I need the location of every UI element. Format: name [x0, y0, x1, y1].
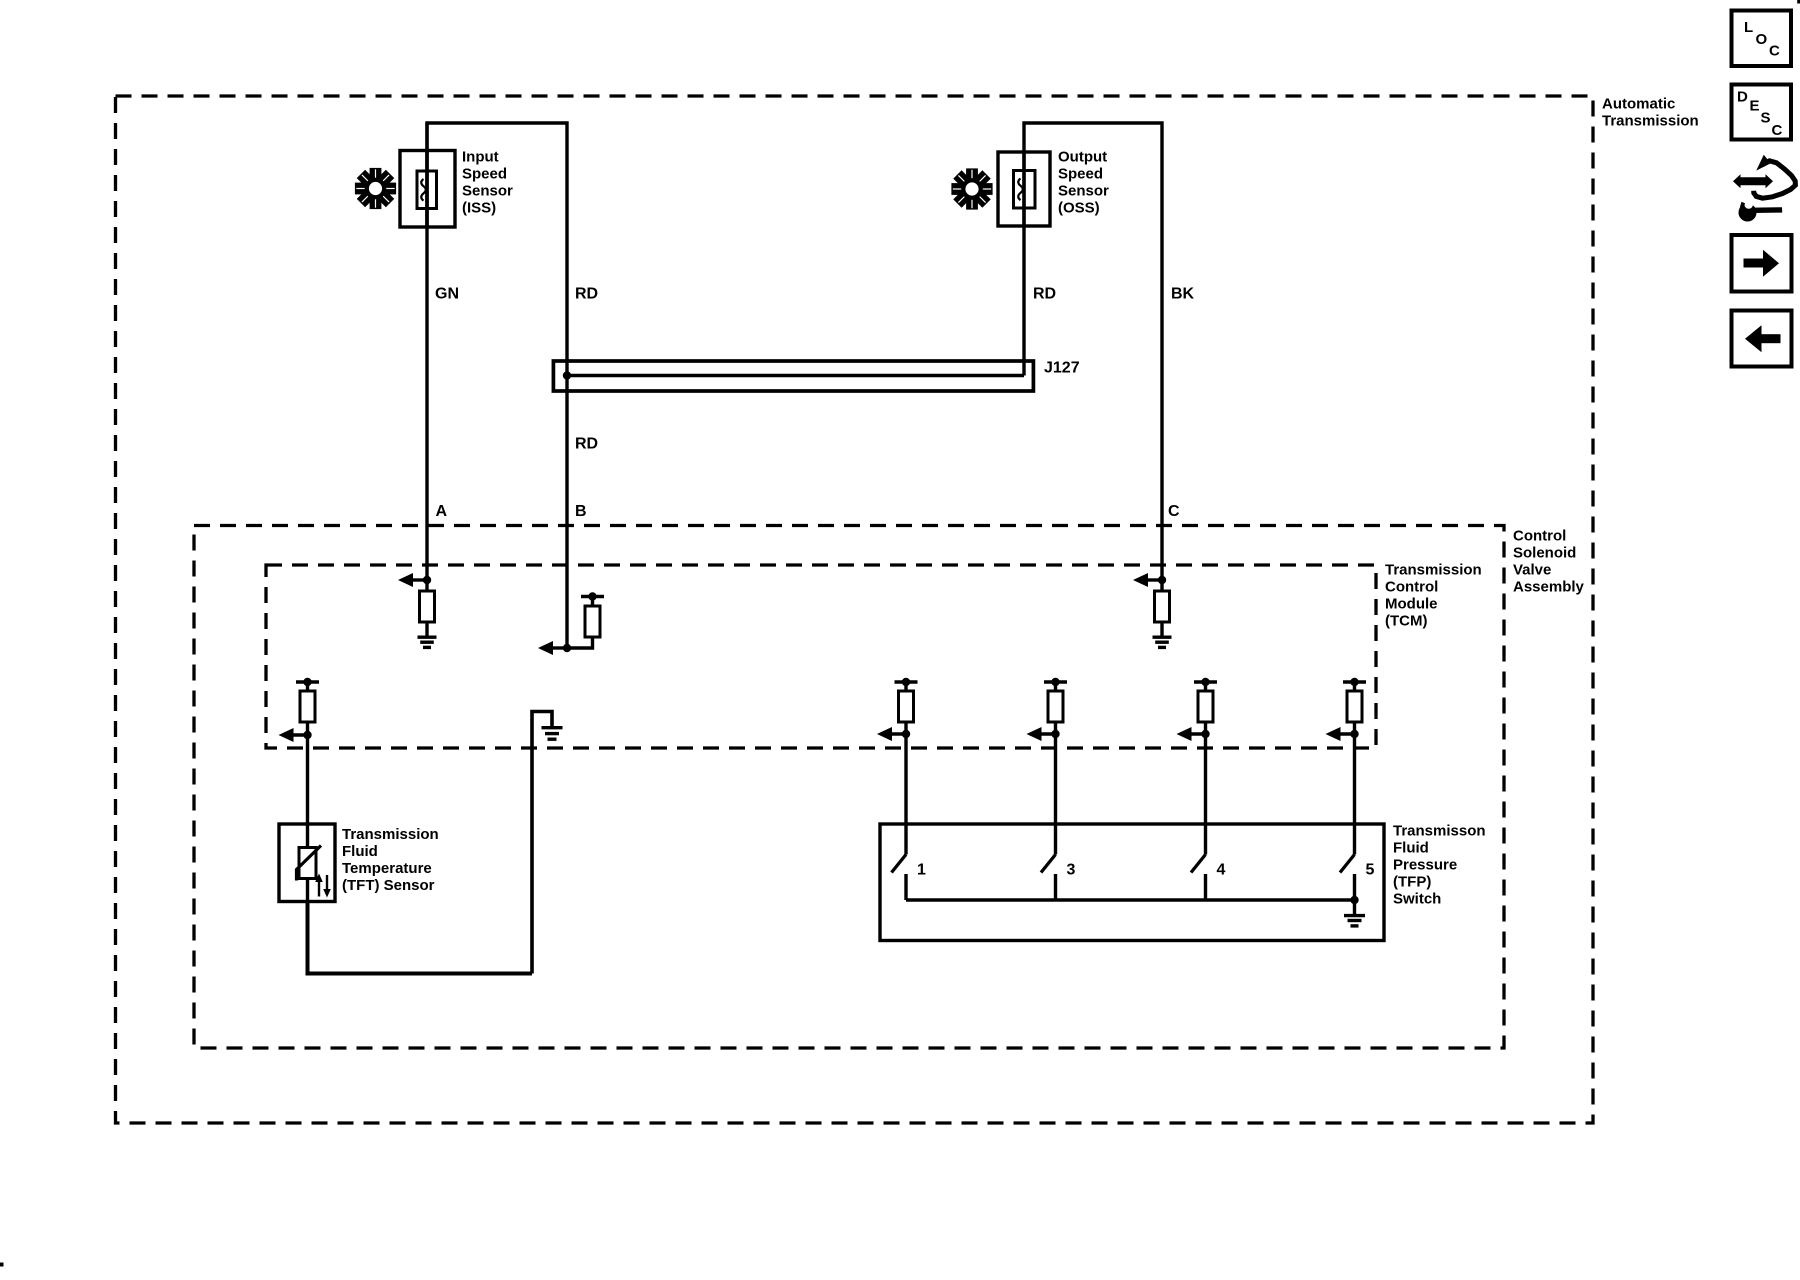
ground below resistor C — [1153, 637, 1172, 647]
node: J127 junction dot — [563, 371, 571, 379]
Transmission Control Module (TCM) dashed boundary — [266, 565, 1376, 748]
svg-text:Switch: Switch — [1393, 891, 1441, 908]
gear icon OSS — [951, 168, 992, 209]
svg-text:O: O — [1756, 31, 1768, 48]
connector J127 — [553, 361, 1033, 391]
node drive 1 arrow — [877, 727, 910, 741]
speck top-right — [1797, 0, 1800, 4]
resistor TCM drive 3 — [1198, 691, 1213, 722]
svg-text:RD: RD — [575, 286, 598, 303]
svg-text:(TFT) Sensor: (TFT) Sensor — [342, 877, 435, 894]
TFP ground — [1344, 900, 1365, 926]
svg-text:Sensor: Sensor — [462, 183, 513, 200]
solenoid drive 1: voltage bar with dot — [895, 678, 918, 686]
resistor TCM drive 4 — [1347, 691, 1362, 722]
wire: RD vertical through J127 down to B — [565, 361, 568, 648]
switch 5 blade — [1340, 855, 1355, 873]
switch 4 blade — [1191, 855, 1206, 873]
TFP common bus — [906, 898, 1355, 901]
wire — [1054, 874, 1057, 900]
wire — [1204, 722, 1207, 734]
TFT up/down arrows — [315, 874, 331, 898]
ISS sensor outer box — [400, 151, 455, 228]
thermistor element — [299, 848, 316, 879]
ground below resistor A — [418, 637, 437, 647]
voltage bar with dot above resistor B — [581, 592, 604, 600]
wire — [306, 879, 309, 902]
wire: ISS wire through sensor box — [425, 123, 428, 227]
wire — [1353, 722, 1356, 734]
wire — [904, 682, 907, 691]
svg-text:4: 4 — [1217, 862, 1226, 879]
svg-text:(TFP): (TFP) — [1393, 874, 1431, 891]
wire: OSS top loop to BK drop — [1024, 123, 1162, 580]
node drive 2 arrow — [1027, 727, 1060, 741]
wire — [904, 722, 907, 734]
wire — [591, 598, 594, 606]
wire: J127 internal conductor — [567, 374, 1024, 377]
solenoid drive 3: voltage bar with dot — [1194, 678, 1217, 686]
svg-text:Assembly: Assembly — [1513, 579, 1585, 596]
wire drive 2 to switch — [1054, 734, 1057, 855]
TFT sensor box — [279, 824, 335, 902]
svg-text:RD: RD — [575, 436, 598, 453]
jump icon: double arrow with swoosh and wrench — [1733, 155, 1795, 222]
svg-text:Transmission: Transmission — [1602, 113, 1699, 130]
svg-text:Solenoid: Solenoid — [1513, 545, 1576, 562]
svg-text:Sensor: Sensor — [1058, 183, 1109, 200]
OSS sensor outer box — [998, 152, 1050, 226]
wire drive 1 to switch — [904, 734, 907, 855]
svg-text:C: C — [1769, 42, 1780, 59]
OSS coil squiggle — [1018, 179, 1023, 201]
ISS coil squiggle — [421, 179, 426, 201]
svg-text:J127: J127 — [1044, 360, 1080, 377]
svg-text:BK: BK — [1171, 286, 1195, 303]
Automatic Transmission dashed boundary — [116, 96, 1594, 1123]
svg-text:Input: Input — [462, 149, 499, 166]
svg-text:GN: GN — [435, 286, 459, 303]
wire — [1160, 580, 1163, 591]
wire — [306, 682, 309, 691]
wire: OSS RD drop into J127 — [1022, 152, 1025, 376]
node A arrow into TCM — [398, 573, 431, 587]
wire drive 3 to switch — [1204, 734, 1207, 855]
wire — [1353, 682, 1356, 691]
svg-text:(OSS): (OSS) — [1058, 200, 1100, 217]
resistor TCM input B — [585, 606, 600, 637]
svg-text:C: C — [1772, 122, 1783, 139]
LOC nav box — [1732, 11, 1792, 67]
svg-text:L: L — [1744, 19, 1753, 36]
wire — [306, 722, 309, 735]
svg-text:Control: Control — [1385, 579, 1438, 596]
resistor TCM drive 1 — [899, 691, 914, 722]
wire from node B to pull-up resistor — [567, 637, 593, 648]
svg-text:Speed: Speed — [462, 166, 507, 183]
svg-text:Fluid: Fluid — [342, 843, 378, 860]
node TFT arrow out of TCM — [279, 728, 312, 742]
switch 3 blade — [1041, 855, 1056, 873]
wire: ISS GN drop (A) — [425, 151, 428, 581]
svg-text:Valve: Valve — [1513, 562, 1551, 579]
wire — [425, 580, 428, 591]
resistor TCM input C — [1155, 591, 1170, 622]
svg-text:(ISS): (ISS) — [462, 200, 496, 217]
TFT pull-up: voltage bar with dot — [296, 678, 319, 686]
gear icon ISS — [355, 168, 396, 209]
wire — [904, 874, 907, 900]
TCM internal ground for TFT return — [532, 712, 563, 974]
speck bottom-left — [0, 1263, 4, 1267]
svg-text:C: C — [1168, 503, 1180, 520]
wire — [1353, 874, 1356, 900]
svg-text:5: 5 — [1366, 862, 1375, 879]
wire TFT signal down to sensor — [306, 735, 309, 848]
svg-text:Output: Output — [1058, 149, 1107, 166]
wire drive 4 to switch — [1353, 734, 1356, 855]
svg-text:Pressure: Pressure — [1393, 857, 1457, 874]
svg-text:S: S — [1761, 109, 1771, 126]
forward arrow nav box — [1732, 235, 1792, 292]
TFP switch box — [880, 824, 1384, 941]
svg-text:Transmission: Transmission — [1385, 562, 1482, 579]
svg-text:(TCM): (TCM) — [1385, 613, 1427, 630]
resistor TCM drive 2 — [1048, 691, 1063, 722]
svg-text:RD: RD — [1033, 286, 1056, 303]
wire TFT return path — [308, 902, 533, 974]
resistor TCM TFT pull-up — [300, 691, 315, 722]
wire — [1054, 682, 1057, 691]
wire — [1204, 874, 1207, 900]
back arrow nav box — [1732, 311, 1792, 367]
svg-text:Module: Module — [1385, 596, 1438, 613]
wire — [1204, 682, 1207, 691]
solenoid drive 4: voltage bar with dot — [1343, 678, 1366, 686]
OSS sensor inner element box — [1014, 171, 1036, 209]
thermistor diagonal stroke — [297, 846, 322, 881]
wire — [1054, 722, 1057, 734]
svg-text:Automatic: Automatic — [1602, 96, 1675, 113]
svg-text:A: A — [436, 503, 448, 520]
Control Solenoid Valve Assembly dashed boundary — [194, 526, 1504, 1049]
wire: ISS top loop to RD drop — [427, 123, 567, 361]
ISS sensor inner element box — [417, 171, 437, 209]
solenoid drive 2: voltage bar with dot — [1044, 678, 1067, 686]
svg-text:B: B — [575, 503, 587, 520]
wire — [425, 622, 428, 636]
DESC nav box — [1732, 85, 1792, 140]
resistor TCM input A — [420, 591, 435, 622]
svg-text:1: 1 — [917, 862, 926, 879]
wire — [306, 824, 309, 848]
svg-text:Fluid: Fluid — [1393, 840, 1429, 857]
svg-text:E: E — [1750, 97, 1760, 114]
svg-text:Transmission: Transmission — [342, 826, 439, 843]
node drive 3 arrow — [1177, 727, 1210, 741]
svg-text:Speed: Speed — [1058, 166, 1103, 183]
switch 1 blade — [892, 855, 907, 873]
node B arrow into TCM — [538, 641, 571, 655]
svg-text:Transmisson: Transmisson — [1393, 823, 1486, 840]
wire — [1160, 622, 1163, 636]
svg-text:Temperature: Temperature — [342, 860, 432, 877]
svg-text:3: 3 — [1067, 862, 1076, 879]
node TFP bus junction — [1350, 896, 1358, 904]
node C arrow into TCM — [1133, 573, 1166, 587]
node drive 4 arrow — [1326, 727, 1359, 741]
svg-text:D: D — [1737, 88, 1748, 105]
svg-text:Control: Control — [1513, 528, 1566, 545]
